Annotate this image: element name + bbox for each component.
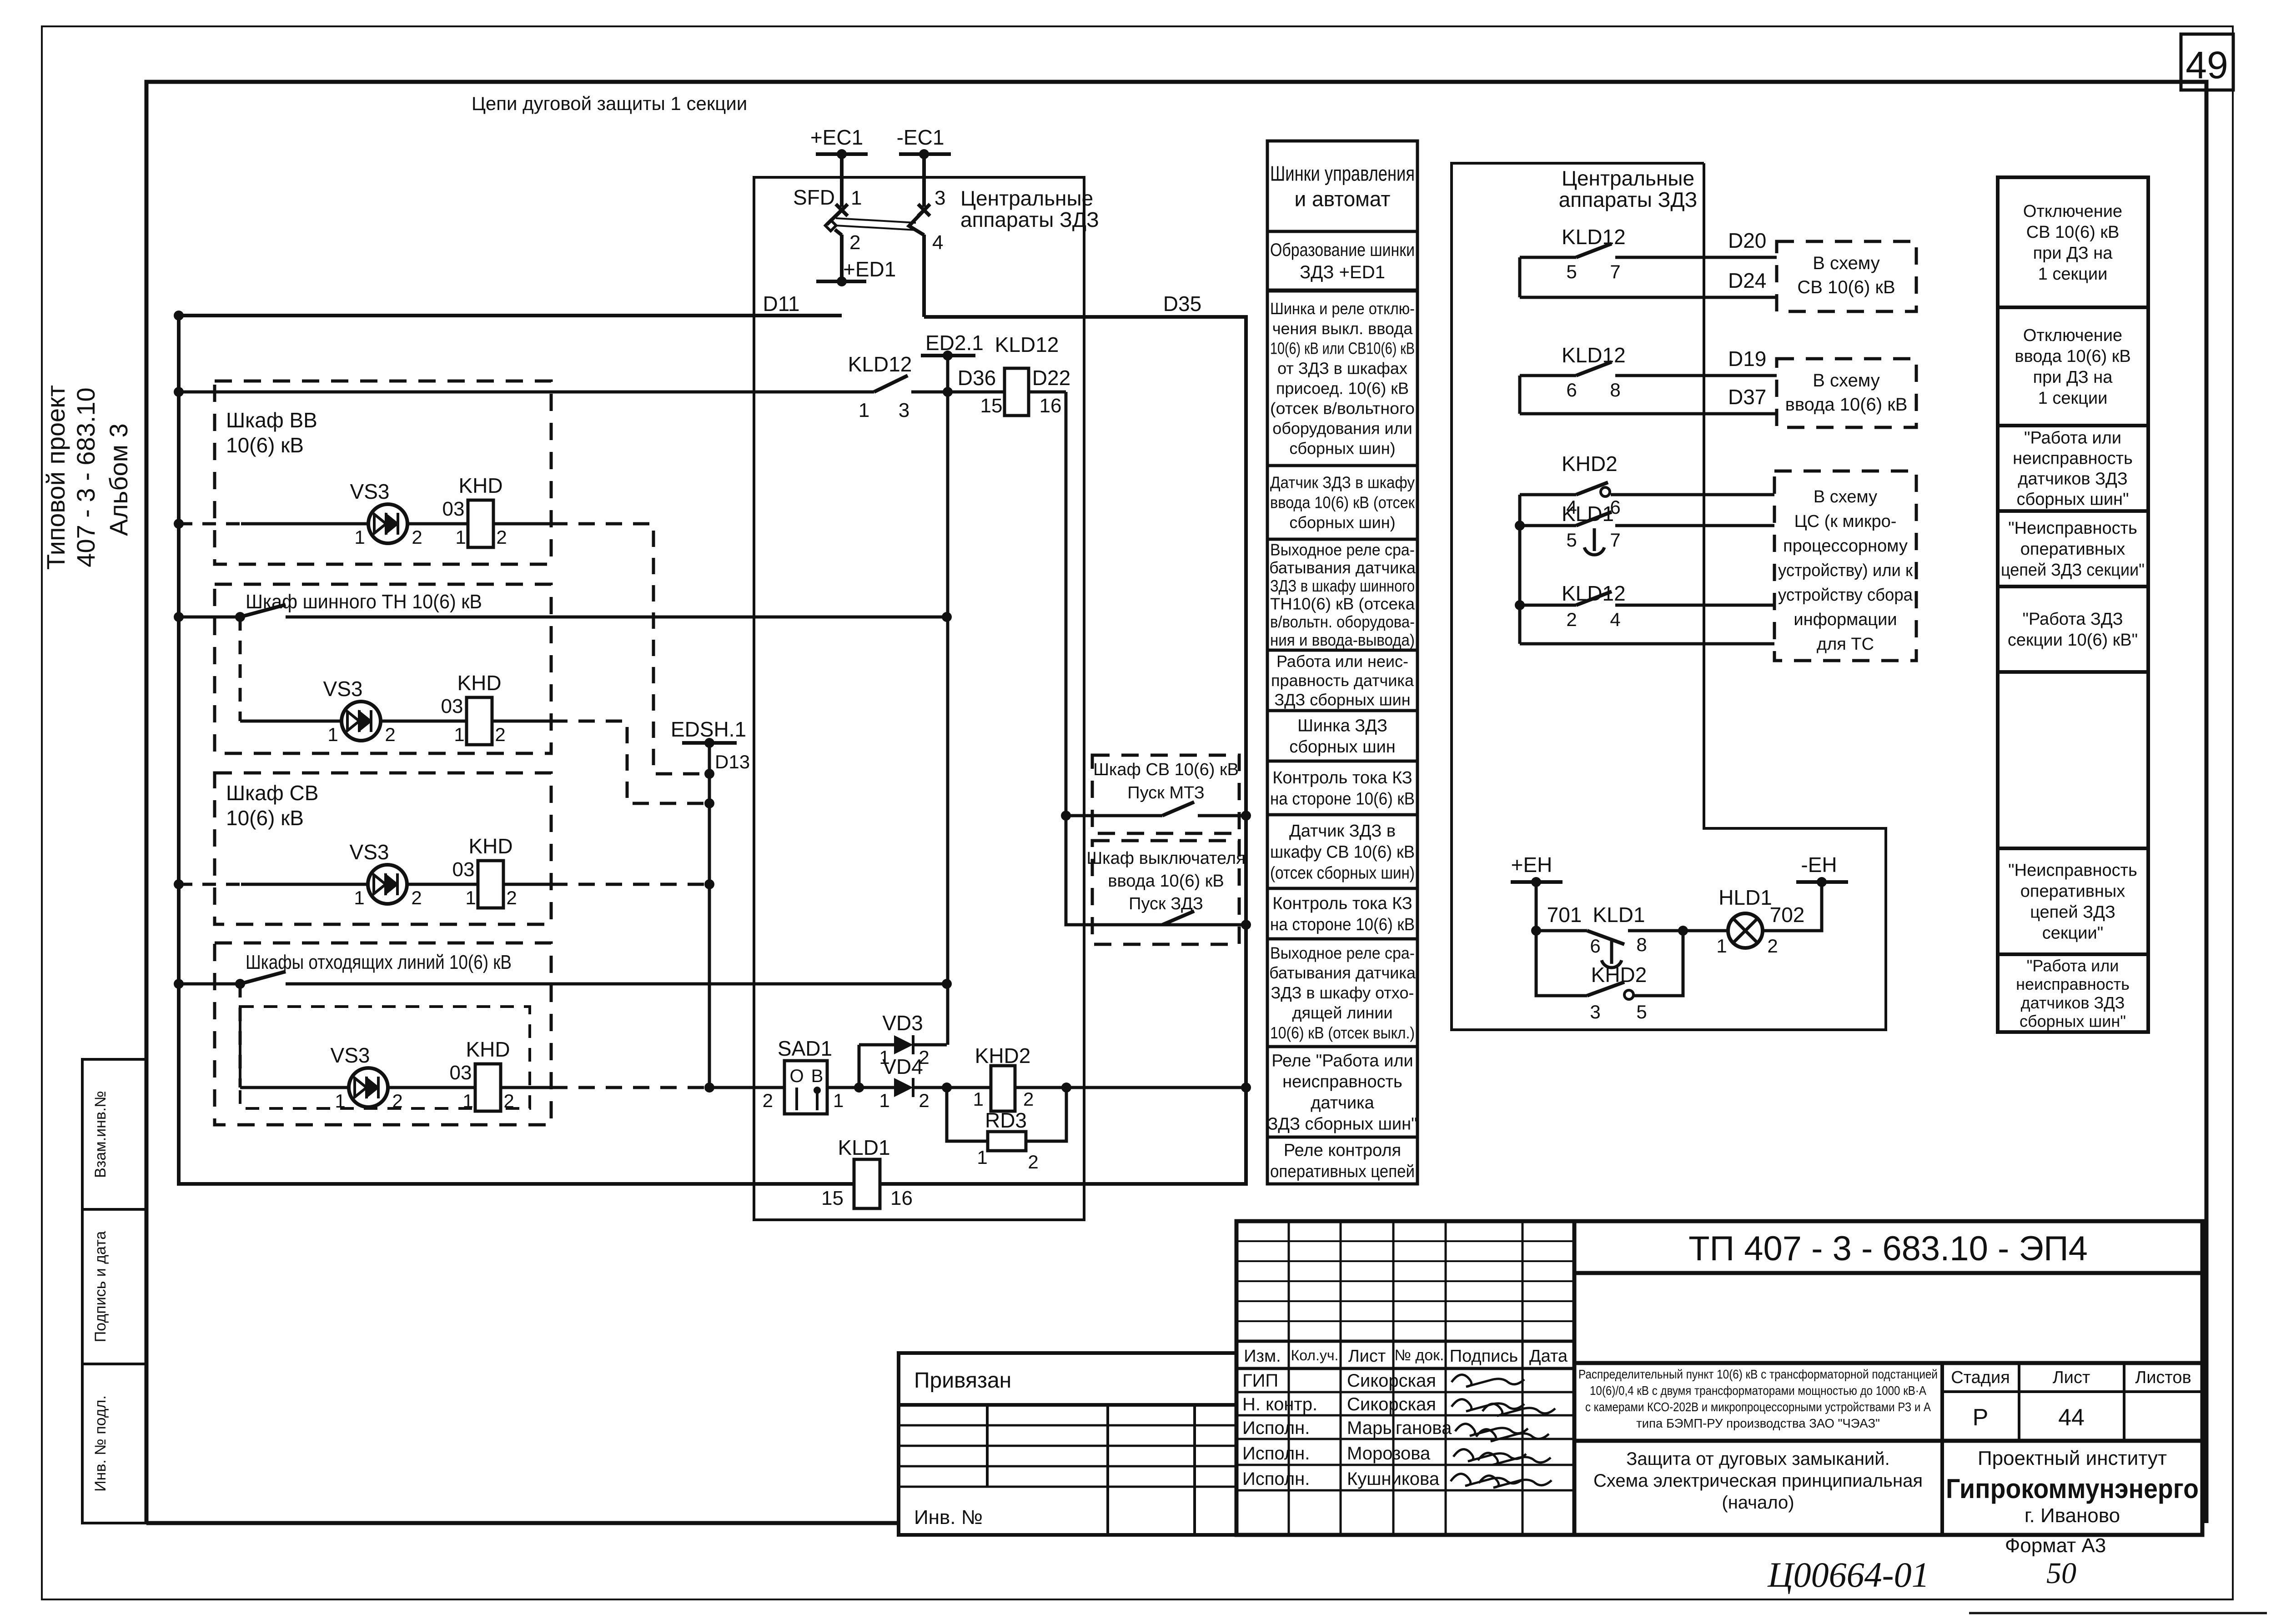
svg-text:присоед. 10(6) кВ: присоед. 10(6) кВ <box>1276 379 1409 398</box>
svg-text:г. Иваново: г. Иваново <box>2025 1504 2120 1527</box>
svg-text:1: 1 <box>851 187 862 209</box>
title block grid <box>1236 1221 2202 1535</box>
svg-text:Лист: Лист <box>2053 1368 2090 1387</box>
svg-text:Контроль тока КЗ: Контроль тока КЗ <box>1272 894 1412 913</box>
svg-text:В: В <box>811 1066 824 1086</box>
svg-text:15: 15 <box>980 395 1003 417</box>
svg-text:Проектный институт: Проектный институт <box>1978 1447 2167 1469</box>
svg-text:3: 3 <box>935 187 945 209</box>
svg-text:ТН10(6) кВ (отсека: ТН10(6) кВ (отсека <box>1270 594 1415 613</box>
svg-text:KLD1: KLD1 <box>1593 903 1645 927</box>
svg-text:2: 2 <box>1566 609 1577 630</box>
svg-text:ввода 10(6) кВ (отсек: ввода 10(6) кВ (отсек <box>1270 493 1415 512</box>
svg-text:2: 2 <box>496 526 507 548</box>
svg-text:Исполн.: Исполн. <box>1242 1444 1310 1464</box>
svg-text:Отключение: Отключение <box>2023 326 2122 345</box>
svg-text:Контроль тока КЗ: Контроль тока КЗ <box>1272 768 1412 787</box>
svg-text:Морозова: Морозова <box>1347 1444 1431 1464</box>
svg-text:В схему: В схему <box>1813 371 1880 391</box>
svg-text:Защита от дуговых замыканий.: Защита от дуговых замыканий. <box>1626 1449 1889 1469</box>
circuit breaker SFD pole 1 (pins 1-2) <box>793 154 862 281</box>
svg-text:процессорному: процессорному <box>1783 536 1908 556</box>
project description block <box>1574 1363 2202 1430</box>
relay coil KHD2 (pins 1-2) <box>942 1044 1066 1111</box>
cabinet box: Шкаф шинного ТН 10(6) кВ <box>215 584 551 753</box>
svg-text:ния и ввода-вывода): ния и ввода-вывода) <box>1270 631 1415 649</box>
heading: Цепи дуговой защиты 1 секции <box>472 93 747 114</box>
node: junction dots on left bus <box>174 311 184 989</box>
svg-text:4: 4 <box>1610 609 1620 630</box>
inner dashed cabinet box (typical feeder) <box>240 1007 530 1108</box>
svg-text:VD4: VD4 <box>882 1055 923 1078</box>
wire: SAD1 output node <box>827 1045 894 1093</box>
wire D24 <box>1520 269 1777 297</box>
sheet number box 49 <box>2181 34 2233 90</box>
svg-text:KLD12: KLD12 <box>848 352 912 376</box>
svg-text:Шинки управления: Шинки управления <box>1270 162 1415 185</box>
svg-text:-EC1: -EC1 <box>897 125 945 149</box>
svg-text:2: 2 <box>412 526 422 548</box>
svg-text:ЗДЗ в шкафу отхо-: ЗДЗ в шкафу отхо- <box>1271 983 1414 1002</box>
svg-text:KHD: KHD <box>457 671 501 695</box>
svg-text:D22: D22 <box>1032 366 1070 390</box>
svg-text:батывания датчика: батывания датчика <box>1269 963 1416 982</box>
svg-text:оперативных: оперативных <box>2020 882 2125 901</box>
svg-text:ЗДЗ в шкафу шинного: ЗДЗ в шкафу шинного <box>1270 576 1415 595</box>
svg-text:Исполн.: Исполн. <box>1242 1418 1310 1438</box>
svg-text:701: 701 <box>1547 903 1582 927</box>
wire: row 3 sensor circuit <box>179 883 551 886</box>
wire: lamp to -EH <box>1763 882 1822 931</box>
svg-text:2: 2 <box>411 887 422 908</box>
svg-text:15: 15 <box>821 1187 844 1209</box>
stage/sheet cells <box>1574 1363 2202 1535</box>
svg-text:KLD12: KLD12 <box>1562 343 1626 367</box>
svg-text:-EH: -EH <box>1801 853 1837 877</box>
wire: row 4 internal drop <box>240 984 551 1088</box>
svg-text:на стороне 10(6) кВ: на стороне 10(6) кВ <box>1270 915 1415 934</box>
svg-text:5: 5 <box>1636 1001 1647 1023</box>
resistor RD3 (parallel) <box>947 1088 1066 1173</box>
svg-text:1: 1 <box>462 1090 473 1112</box>
contact KLD12 (pins 2-4) <box>1515 581 1774 630</box>
svg-text:1: 1 <box>973 1088 984 1110</box>
svg-text:2: 2 <box>763 1090 773 1111</box>
svg-text:8: 8 <box>1636 934 1647 955</box>
svg-text:Подпись и дата: Подпись и дата <box>92 1231 109 1343</box>
svg-text:"Неисправность: "Неисправность <box>2008 519 2137 538</box>
breaker mechanical link <box>836 218 916 230</box>
contact KLD1 (pins 6-8) with time delay <box>1531 882 1683 967</box>
svg-text:Реле контроля: Реле контроля <box>1284 1141 1401 1160</box>
svg-text:7: 7 <box>1610 261 1620 282</box>
svg-text:ЗДЗ сборных шин: ЗДЗ сборных шин <box>1274 690 1410 709</box>
svg-text:Кол.уч.: Кол.уч. <box>1291 1347 1339 1363</box>
wire: ED2.1 vertical to VD3 <box>943 356 953 1045</box>
circuit breaker SFD pole 2 (pins 3-4) <box>909 154 945 317</box>
svg-text:44: 44 <box>2058 1404 2085 1431</box>
svg-text:Альбом 3: Альбом 3 <box>104 423 133 536</box>
svg-text:16: 16 <box>1040 395 1062 417</box>
svg-text:ЗДЗ +ED1: ЗДЗ +ED1 <box>1300 262 1385 282</box>
diode VD3 <box>879 1011 947 1068</box>
svg-text:2: 2 <box>503 1090 514 1112</box>
svg-text:Изм.: Изм. <box>1244 1347 1281 1366</box>
svg-text:сборных шин": сборных шин" <box>2020 1012 2126 1031</box>
central apparatus box (Центральные аппараты ЗДЗ) <box>754 177 1099 1220</box>
svg-text:2: 2 <box>506 887 517 908</box>
link box: В схему СВ 10(6) кВ <box>1777 241 1916 311</box>
wire: row 3 dashed link to EDSH.1 <box>551 883 706 886</box>
svg-text:2: 2 <box>1028 1151 1038 1173</box>
svg-text:неисправность: неисправность <box>1282 1073 1402 1092</box>
svg-text:KHD2: KHD2 <box>1562 452 1618 476</box>
svg-text:цепей ЗДЗ секции": цепей ЗДЗ секции" <box>2001 561 2145 580</box>
svg-text:Сикорская: Сикорская <box>1347 1371 1436 1391</box>
svg-text:правность датчика: правность датчика <box>1271 671 1414 690</box>
svg-text:ЗДЗ сборных шин": ЗДЗ сборных шин" <box>1267 1114 1417 1133</box>
svg-text:1: 1 <box>859 399 869 421</box>
svg-text:Шинка и реле отклю-: Шинка и реле отклю- <box>1270 299 1415 318</box>
svg-text:VS3: VS3 <box>350 480 390 503</box>
svg-text:+EC1: +EC1 <box>810 125 863 149</box>
svg-text:датчиков ЗДЗ: датчиков ЗДЗ <box>2021 993 2125 1012</box>
svg-text:сборных шин): сборных шин) <box>1289 439 1395 457</box>
svg-text:KHD2: KHD2 <box>975 1044 1031 1068</box>
format label <box>2005 1534 2106 1557</box>
bus -EH <box>1796 853 1848 887</box>
svg-text:D36: D36 <box>958 366 996 390</box>
svg-text:для ТС: для ТС <box>1817 635 1874 654</box>
svg-text:ТП 407 - 3 - 683.10 - ЭП4: ТП 407 - 3 - 683.10 - ЭП4 <box>1688 1229 2088 1268</box>
svg-text:№ док.: № док. <box>1395 1347 1444 1364</box>
output relay KHD (отходящие линии) <box>450 1038 514 1112</box>
contact: Пуск МТЗ (arc detection start) <box>1066 802 1251 821</box>
bus +EC1 <box>810 125 868 159</box>
bus +EH <box>1511 853 1563 887</box>
svg-text:10(6)/0,4 кВ с двумя трансформ: 10(6)/0,4 кВ с двумя трансформаторами мо… <box>1590 1383 1927 1398</box>
svg-text:1: 1 <box>465 887 476 908</box>
svg-text:Образование шинки: Образование шинки <box>1270 240 1415 260</box>
svg-text:2: 2 <box>392 1090 402 1112</box>
svg-text:D24: D24 <box>1728 269 1766 292</box>
design institute <box>1946 1447 2199 1527</box>
diode VD4 <box>879 1055 947 1111</box>
svg-text:Инв. № подл.: Инв. № подл. <box>92 1395 109 1492</box>
svg-text:типа БЭМП-РУ производства ЗАО: типа БЭМП-РУ производства ЗАО "ЧЭАЗ" <box>1636 1416 1880 1430</box>
relay coil KLD12 (pins 15-16) <box>948 333 1070 417</box>
signatures (handwritten) <box>1451 1375 1555 1488</box>
wire: row 4 dashed link to SAD1 <box>551 1086 706 1089</box>
contact KLD12 (pins 6-8) to вводу <box>1520 343 1777 414</box>
svg-text:Типовой проект: Типовой проект <box>41 385 70 570</box>
svg-text:1: 1 <box>455 526 466 548</box>
svg-text:Н. контр.: Н. контр. <box>1242 1394 1317 1414</box>
drawing title <box>1593 1449 1923 1513</box>
svg-text:(отсек сборных шин): (отсек сборных шин) <box>1270 864 1415 883</box>
svg-text:10(6) кВ (отсек выкл.): 10(6) кВ (отсек выкл.) <box>1270 1023 1415 1042</box>
svg-text:оборудования или: оборудования или <box>1272 419 1412 437</box>
contact KHD2 (pins 3-5) bypass <box>1536 931 1683 1023</box>
arc sensor VS3 (Шкаф ВВ) <box>350 480 422 548</box>
svg-text:сборных шин): сборных шин) <box>1289 513 1395 532</box>
svg-text:1: 1 <box>977 1147 987 1168</box>
svg-text:ввода 10(6) кВ: ввода 10(6) кВ <box>2015 347 2130 366</box>
svg-text:EDSH.1: EDSH.1 <box>671 717 746 741</box>
svg-text:Шкафы отходящих линий 10(6) кВ: Шкафы отходящих линий 10(6) кВ <box>246 951 512 973</box>
svg-text:ED2.1: ED2.1 <box>925 331 984 355</box>
svg-text:в/вольтн. оборудова-: в/вольтн. оборудова- <box>1270 612 1415 631</box>
svg-text:Цепи дуговой защиты 1 секции: Цепи дуговой защиты 1 секции <box>472 93 747 114</box>
wire: ТН internal drop <box>240 617 551 721</box>
svg-text:2: 2 <box>385 724 395 745</box>
svg-text:чения выкл. ввода: чения выкл. ввода <box>1272 319 1413 338</box>
svg-text:Шкаф выключателя: Шкаф выключателя <box>1086 849 1245 868</box>
svg-text:Шинка ЗДЗ: Шинка ЗДЗ <box>1297 717 1387 736</box>
svg-text:03: 03 <box>452 858 475 881</box>
sheet 50 (handwritten) <box>2046 1557 2076 1590</box>
inventory number (handwritten) <box>1767 1555 1929 1594</box>
svg-text:1: 1 <box>454 724 464 745</box>
svg-text:D20: D20 <box>1728 229 1766 252</box>
svg-text:1: 1 <box>335 1090 345 1112</box>
svg-text:ЦС (к микро-: ЦС (к микро- <box>1794 512 1897 531</box>
svg-text:RD3: RD3 <box>985 1108 1027 1132</box>
svg-text:оперативных цепей: оперативных цепей <box>1270 1162 1415 1181</box>
svg-text:Шкаф шинного ТН 10(6) кВ: Шкаф шинного ТН 10(6) кВ <box>246 591 482 613</box>
svg-text:50: 50 <box>2046 1557 2076 1590</box>
svg-text:D13: D13 <box>715 751 750 772</box>
svg-text:10(6) кВ или СВ10(6) кВ: 10(6) кВ или СВ10(6) кВ <box>1270 339 1415 358</box>
svg-text:1: 1 <box>354 526 365 548</box>
vertical project label: Типовой проект 407-3-683.10 Альбом 3 <box>41 385 133 570</box>
contact: дуговой датчик ТН switch <box>179 605 952 622</box>
svg-text:Ц00664-01: Ц00664-01 <box>1767 1555 1929 1594</box>
svg-text:KLD12: KLD12 <box>1562 581 1626 605</box>
svg-text:ввода 10(6) кВ: ввода 10(6) кВ <box>1785 395 1908 415</box>
svg-text:Подпись: Подпись <box>1450 1347 1518 1366</box>
svg-text:1 секции: 1 секции <box>2038 265 2108 284</box>
svg-text:Гипрокоммунэнерго: Гипрокоммунэнерго <box>1946 1474 2199 1504</box>
contact: Пуск ЗДЗ <box>1092 911 1251 930</box>
svg-text:датчиков ЗДЗ: датчиков ЗДЗ <box>2018 470 2127 489</box>
svg-text:Выходное реле сра-: Выходное реле сра- <box>1270 943 1415 962</box>
bus +ED1 <box>816 257 896 286</box>
svg-text:О: О <box>789 1066 804 1086</box>
bus -EC1 <box>897 125 951 159</box>
svg-text:В схему: В схему <box>1814 487 1877 506</box>
svg-text:сборных шин: сборных шин <box>1289 737 1396 757</box>
wire: D22 vertical to start contacts <box>1061 392 1246 925</box>
cabinet box: Шкафы отходящих линий 10(6) кВ <box>215 943 551 1125</box>
svg-text:10(6) кВ: 10(6) кВ <box>226 806 304 830</box>
cabinet box: Шкаф ВВ 10(6) кВ <box>215 381 551 564</box>
bus EDSH.1 with D13 <box>671 717 750 772</box>
svg-text:702: 702 <box>1770 903 1805 927</box>
svg-text:1: 1 <box>879 1090 889 1111</box>
svg-text:HLD1: HLD1 <box>1718 886 1772 909</box>
svg-text:устройству сбора: устройству сбора <box>1778 586 1913 605</box>
svg-text:Р: Р <box>1973 1404 1989 1431</box>
link box: В схему ввода 10(6) кВ <box>1777 359 1916 427</box>
svg-text:KHD: KHD <box>466 1038 510 1061</box>
svg-text:1: 1 <box>354 887 364 908</box>
svg-text:ГИП: ГИП <box>1242 1371 1278 1391</box>
wire: EDSH.1 vertical collector <box>704 743 784 1093</box>
svg-text:KLD12: KLD12 <box>995 333 1059 356</box>
node: KHD2 output to D35 <box>1061 1083 1251 1093</box>
svg-text:7: 7 <box>1610 529 1620 551</box>
svg-text:секции 10(6) кВ": секции 10(6) кВ" <box>2008 631 2138 650</box>
svg-text:VS3: VS3 <box>323 677 363 701</box>
svg-text:D11: D11 <box>763 292 800 316</box>
svg-text:Центральные: Центральные <box>960 186 1093 210</box>
svg-text:при ДЗ на: при ДЗ на <box>2033 244 2113 263</box>
svg-text:цепей ЗДЗ: цепей ЗДЗ <box>2030 903 2115 922</box>
contact KHD2 (pins 4-6) <box>1520 452 1774 644</box>
selector switch SAD1 <box>763 1037 844 1114</box>
bus ED2.1 <box>921 331 984 361</box>
right apparatus box (Центральные аппараты ЗДЗ) <box>1452 163 1886 1030</box>
svg-text:Пуск МТЗ: Пуск МТЗ <box>1127 783 1204 802</box>
svg-text:датчика: датчика <box>1311 1093 1374 1113</box>
output relay KHD (Шкаф ВВ) <box>442 474 507 548</box>
svg-text:49: 49 <box>2186 44 2228 86</box>
svg-text:1: 1 <box>833 1090 844 1111</box>
contact: дуговой датчик отходящих линий switch <box>179 972 952 989</box>
svg-text:устройству) или к: устройству) или к <box>1778 561 1913 580</box>
arc sensor VS3 (Шкаф СВ) <box>350 840 422 908</box>
svg-text:В схему: В схему <box>1813 253 1880 273</box>
svg-text:неисправность: неисправность <box>2013 449 2133 468</box>
svg-text:секции": секции" <box>2042 924 2103 943</box>
svg-text:KHD: KHD <box>458 474 502 497</box>
cabinet box: Шкаф СВ 10(6) кВ Пуск МТЗ <box>1092 755 1239 833</box>
svg-text:Реле "Работа или: Реле "Работа или <box>1271 1051 1413 1070</box>
svg-text:Марыганова: Марыганова <box>1347 1418 1452 1438</box>
svg-text:SFD: SFD <box>793 185 835 209</box>
svg-text:шкафу СВ 10(6) кВ: шкафу СВ 10(6) кВ <box>1270 842 1415 862</box>
relay coil KLD1 (pins 15-16) <box>821 1136 913 1209</box>
svg-text:2: 2 <box>495 724 505 745</box>
svg-text:Работа или неис-: Работа или неис- <box>1276 652 1408 671</box>
svg-text:VS3: VS3 <box>331 1043 370 1067</box>
svg-text:Листов: Листов <box>2135 1368 2191 1387</box>
svg-text:"Работа ЗДЗ: "Работа ЗДЗ <box>2022 610 2123 629</box>
title block signature rows <box>1242 1371 1452 1489</box>
svg-text:3: 3 <box>899 399 909 421</box>
svg-text:D19: D19 <box>1728 347 1766 371</box>
svg-text:Взам.инв.№: Взам.инв.№ <box>92 1091 109 1178</box>
svg-text:Исполн.: Исполн. <box>1242 1469 1310 1489</box>
svg-text:ввода 10(6) кВ: ввода 10(6) кВ <box>1108 872 1224 891</box>
svg-text:Датчик ЗДЗ в: Датчик ЗДЗ в <box>1289 822 1396 841</box>
svg-text:Схема электрическая принципиал: Схема электрическая принципиальная <box>1593 1471 1923 1491</box>
svg-text:8: 8 <box>1610 379 1620 401</box>
svg-text:Отключение: Отключение <box>2023 202 2122 221</box>
svg-text:аппараты ЗДЗ: аппараты ЗДЗ <box>1559 188 1698 211</box>
svg-text:Датчик ЗДЗ в шкафу: Датчик ЗДЗ в шкафу <box>1270 473 1415 492</box>
svg-text:от ЗДЗ в шкафах: от ЗДЗ в шкафах <box>1277 359 1407 378</box>
contact KLD1 (pins 5-7) with time delay <box>1515 502 1774 555</box>
link box: В схему ЦС (микропроцессорное устройство / ТС) <box>1774 471 1916 661</box>
svg-text:+ED1: +ED1 <box>843 257 896 281</box>
document number ТП 407-3-683.10-ЭП4 <box>1574 1229 2202 1273</box>
svg-text:сборных шин": сборных шин" <box>2016 490 2129 509</box>
title block header labels <box>1244 1347 1568 1366</box>
output description table <box>1998 177 2148 1032</box>
svg-text:03: 03 <box>450 1062 472 1084</box>
svg-text:батывания датчика: батывания датчика <box>1269 558 1416 577</box>
svg-text:5: 5 <box>1566 529 1577 551</box>
svg-text:на стороне 10(6) кВ: на стороне 10(6) кВ <box>1270 789 1415 808</box>
wire: row 1 dashed link to EDSH.1 <box>551 524 706 774</box>
svg-text:KLD1: KLD1 <box>1562 502 1614 526</box>
wire: row 2 dashed link to EDSH.1 <box>551 721 706 803</box>
svg-text:"Работа или: "Работа или <box>2027 956 2119 975</box>
wire D37 <box>1520 385 1777 414</box>
svg-text:неисправность: неисправность <box>2016 975 2130 993</box>
wire: D11 bus <box>179 292 842 316</box>
svg-text:2: 2 <box>849 231 860 254</box>
svg-text:СВ 10(6) кВ: СВ 10(6) кВ <box>2026 223 2120 242</box>
wire: lower return to ЦС box <box>1520 642 1774 646</box>
svg-text:D37: D37 <box>1728 385 1766 409</box>
svg-text:1: 1 <box>1716 935 1727 957</box>
svg-text:03: 03 <box>441 695 463 717</box>
arc sensor VS3 (отходящие линии) <box>331 1043 403 1112</box>
svg-text:4: 4 <box>932 231 943 254</box>
svg-text:Распределительный пункт 10(6): Распределительный пункт 10(6) кВ с транс… <box>1578 1367 1938 1381</box>
svg-text:Лист: Лист <box>1348 1347 1386 1366</box>
svg-text:аппараты ЗДЗ: аппараты ЗДЗ <box>960 208 1099 231</box>
svg-text:16: 16 <box>890 1187 913 1209</box>
indicator lamp HLD1 <box>1716 886 1804 957</box>
svg-text:Дата: Дата <box>1529 1347 1568 1366</box>
svg-text:2: 2 <box>1023 1088 1034 1110</box>
svg-text:6: 6 <box>1566 379 1577 401</box>
svg-text:KHD: KHD <box>468 834 512 858</box>
svg-text:Выходное реле сра-: Выходное реле сра- <box>1270 540 1415 559</box>
svg-text:03: 03 <box>442 498 465 520</box>
svg-text:Стадия: Стадия <box>1951 1368 2010 1387</box>
svg-text:(начало): (начало) <box>1722 1493 1794 1513</box>
svg-text:Шкаф СВ 10(6) кВ: Шкаф СВ 10(6) кВ <box>1093 760 1239 779</box>
svg-text:VS3: VS3 <box>350 840 389 864</box>
svg-text:Кушникова: Кушникова <box>1347 1469 1440 1489</box>
output relay KHD (Шкаф СВ) <box>452 834 517 908</box>
svg-text:и автомат: и автомат <box>1295 187 1391 211</box>
svg-text:KHD2: KHD2 <box>1591 963 1647 987</box>
svg-text:+EH: +EH <box>1511 853 1553 877</box>
svg-text:Шкаф СВ: Шкаф СВ <box>226 781 318 805</box>
information table: Шинки управления и автомат <box>1267 141 1417 1184</box>
binding table (Привязан / Инв. №) <box>899 1353 1236 1535</box>
svg-text:3: 3 <box>1590 1001 1600 1023</box>
svg-text:Привязан: Привязан <box>914 1368 1011 1393</box>
svg-text:KLD1: KLD1 <box>838 1136 890 1159</box>
svg-text:10(6) кВ: 10(6) кВ <box>226 433 304 457</box>
svg-text:2: 2 <box>1767 935 1778 957</box>
cabinet box: Шкаф выключателя ввода 10(6) кВ Пуск ЗДЗ <box>1086 841 1245 944</box>
svg-text:с камерами КСО-202В и микропро: с камерами КСО-202В и микропроцессорными… <box>1585 1400 1931 1414</box>
node: lamp input junction <box>1678 926 1728 936</box>
svg-text:Формат А3: Формат А3 <box>2005 1534 2106 1557</box>
svg-text:СВ 10(6) кВ: СВ 10(6) кВ <box>1797 277 1895 297</box>
svg-text:Сикорская: Сикорская <box>1347 1394 1436 1414</box>
svg-text:6: 6 <box>1590 935 1600 957</box>
svg-text:SAD1: SAD1 <box>778 1037 832 1060</box>
